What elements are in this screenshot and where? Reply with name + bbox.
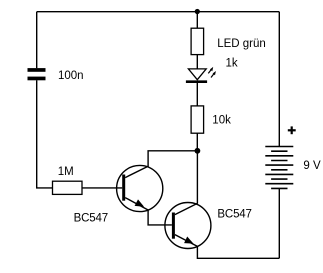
wire battery minus to bottom <box>278 188 280 258</box>
wire LED chain top <box>196 12 198 29</box>
svg-text:LED grün: LED grün <box>217 38 266 50</box>
wire junction down to Q2 collector <box>196 151 198 204</box>
resistor 10k <box>191 106 204 133</box>
LED light arrow 2 <box>211 71 216 78</box>
wire Q1 emitter to Q2 base <box>148 210 172 225</box>
resistor 1k <box>191 28 204 54</box>
wire 10k to junction <box>196 133 198 151</box>
svg-text:BC547: BC547 <box>217 209 251 221</box>
battery BT 9V <box>265 147 293 189</box>
wire 1k to LED <box>196 55 198 69</box>
battery plus label <box>288 126 296 134</box>
svg-text:9 V: 9 V <box>303 160 321 172</box>
node junction collectors <box>195 148 201 154</box>
transistor Q2 BC547 <box>165 203 211 249</box>
wire Q1 collector to junction <box>148 151 197 167</box>
wire right vertical to battery plus <box>278 12 280 147</box>
wire left vertical upper <box>36 12 38 68</box>
wire LED to 10k <box>196 82 198 106</box>
wire top horizontal <box>37 11 280 13</box>
resistor 1M <box>53 181 83 194</box>
capacitor C 100n plates <box>28 68 46 80</box>
svg-text:BC547: BC547 <box>74 213 108 225</box>
svg-text:100n: 100n <box>58 70 84 82</box>
svg-text:1M: 1M <box>58 166 74 178</box>
svg-text:10k: 10k <box>212 115 231 127</box>
LED light arrow 1 <box>208 67 213 74</box>
svg-text:1k: 1k <box>226 58 238 70</box>
wire 1M to Q1 base <box>82 187 122 189</box>
transistor Q1 BC547 <box>117 165 163 211</box>
wire Q2 emitter to bottom <box>197 246 279 258</box>
LED D1 <box>186 67 216 82</box>
wire left vertical lower <box>37 80 53 188</box>
node junction top <box>195 9 200 14</box>
